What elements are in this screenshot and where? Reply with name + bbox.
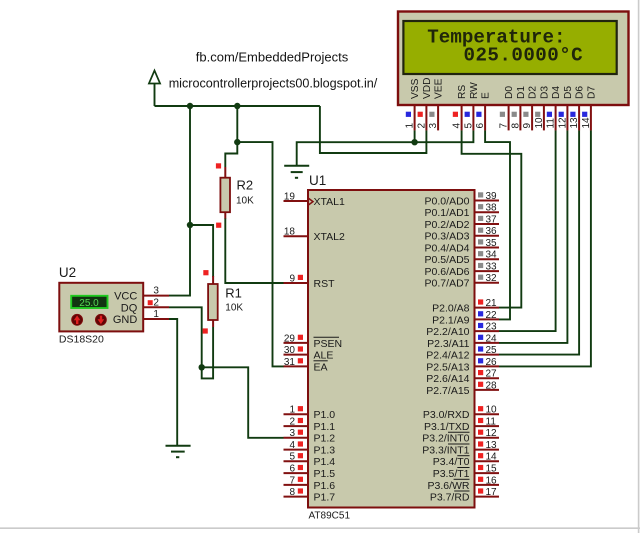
junction at rail x190 xyxy=(187,103,193,109)
junction VSS ground node xyxy=(411,139,417,145)
svg-text:18: 18 xyxy=(284,227,296,238)
svg-text:EA: EA xyxy=(314,361,328,373)
svg-text:7: 7 xyxy=(499,123,510,129)
svg-text:33: 33 xyxy=(486,262,498,273)
svg-text:26: 26 xyxy=(486,357,498,368)
wire D5 to P2.3 xyxy=(499,130,567,343)
U1 pin 33 P0.6/AD6 xyxy=(425,262,499,279)
U1 pin 11 P3.1/TXD xyxy=(424,417,499,434)
U1 pin 36 P0.3/AD3 xyxy=(425,226,499,243)
LCD pin 4 RS xyxy=(452,85,469,131)
svg-text:23: 23 xyxy=(486,322,498,333)
svg-text:37: 37 xyxy=(486,214,498,225)
U2 pin GND (1) xyxy=(113,309,169,326)
U2 temperature display 25.0 xyxy=(71,296,107,309)
junction DQ node xyxy=(199,364,205,370)
LCD pin 3 VEE xyxy=(428,78,445,130)
U1 pin 27 P2.6/A14 xyxy=(426,369,499,386)
U1 pin 22 P2.1/A9 xyxy=(432,310,499,327)
svg-text:XTAL2: XTAL2 xyxy=(314,231,345,243)
LCD pin 6 E xyxy=(475,92,492,130)
svg-text:3: 3 xyxy=(289,428,295,439)
LCD pin 7 D0 xyxy=(499,86,516,131)
svg-text:VEE: VEE xyxy=(434,78,445,99)
svg-text:P0.7/AD7: P0.7/AD7 xyxy=(425,278,470,290)
svg-text:16: 16 xyxy=(486,475,498,486)
svg-text:10: 10 xyxy=(486,405,498,416)
svg-text:P3.3/INT1: P3.3/INT1 xyxy=(422,445,469,457)
U1 pin 26 P2.5/A13 xyxy=(426,357,499,374)
svg-text:P2.3/A11: P2.3/A11 xyxy=(427,338,470,350)
wire D7 to P2.5 xyxy=(499,130,591,366)
U1 pin 30 ALE xyxy=(284,345,334,362)
svg-text:P0.2/AD2: P0.2/AD2 xyxy=(425,219,470,231)
svg-text:P0.5/AD5: P0.5/AD5 xyxy=(425,254,470,266)
svg-text:1: 1 xyxy=(153,309,159,320)
U1 pin 1 P1.0 xyxy=(284,405,336,422)
U2 pin VCC (3) xyxy=(114,286,169,303)
svg-text:D0: D0 xyxy=(504,86,515,99)
svg-text:P2.1/A9: P2.1/A9 xyxy=(432,314,470,326)
svg-text:U1: U1 xyxy=(309,173,326,188)
U1 pin 34 P0.5/AD5 xyxy=(425,250,499,267)
U1 pin 35 P0.4/AD4 xyxy=(425,238,499,255)
svg-text:P0.4/AD4: P0.4/AD4 xyxy=(425,242,470,254)
LCD pin 10 D3 xyxy=(534,86,551,131)
svg-text:19: 19 xyxy=(284,191,296,202)
wire R2 bottom to RST xyxy=(225,218,283,283)
U1 pin 10 P3.0/RXD xyxy=(423,405,499,422)
temperature sensor U2 DS18S20 xyxy=(59,283,143,332)
svg-text:34: 34 xyxy=(486,250,498,261)
svg-text:P3.6/WR: P3.6/WR xyxy=(427,480,469,492)
svg-text:21: 21 xyxy=(486,298,498,309)
svg-text:10: 10 xyxy=(534,117,545,129)
svg-text:13: 13 xyxy=(486,440,498,451)
svg-text:31: 31 xyxy=(284,357,296,368)
power terminal +5V xyxy=(149,71,160,107)
U1 pin 21 P2.0/A8 xyxy=(432,298,499,315)
wire VDD branch to LCD pin2 xyxy=(320,106,427,153)
svg-text:P1.6: P1.6 xyxy=(314,480,336,492)
LCD pin 2 VDD xyxy=(416,77,433,130)
svg-text:P1.0: P1.0 xyxy=(314,409,336,421)
U1 pin 25 P2.4/A12 xyxy=(426,345,499,362)
U2 pin DQ (2) xyxy=(121,297,169,314)
svg-text:6: 6 xyxy=(289,464,295,475)
svg-text:PSEN: PSEN xyxy=(314,338,343,350)
wire node to R1 bottom xyxy=(202,327,213,378)
wire to R2 top xyxy=(225,142,237,167)
ground symbol near U1 xyxy=(284,166,309,178)
U1 pin 5 P1.4 xyxy=(284,452,336,469)
svg-text:P0.6/AD6: P0.6/AD6 xyxy=(425,266,470,278)
U1 pin 28 P2.7/A15 xyxy=(426,380,499,397)
IC U1 AT89C51 body xyxy=(308,190,475,508)
wire VCC branch to U2 xyxy=(169,106,190,296)
LCD module body xyxy=(398,12,629,106)
U1 pin 18 XTAL2 xyxy=(284,227,345,244)
svg-text:P3.7/RD: P3.7/RD xyxy=(430,492,470,504)
wire E to P2.1 xyxy=(485,130,510,319)
wire D4 to P2.2 xyxy=(499,130,556,331)
svg-text:2: 2 xyxy=(153,297,159,308)
U1 pin 12 P3.2/INT0 xyxy=(422,428,499,445)
LCD pin 9 D2 xyxy=(522,86,539,131)
LCD pin 13 D6 xyxy=(569,86,586,131)
svg-text:5: 5 xyxy=(289,452,295,463)
svg-text:9: 9 xyxy=(289,273,295,284)
wire branch to R1 top xyxy=(190,225,213,277)
svg-text:39: 39 xyxy=(486,191,498,202)
wire DQ from U2 to node xyxy=(169,307,202,367)
svg-text:8: 8 xyxy=(289,487,295,498)
svg-text:P3.1/TXD: P3.1/TXD xyxy=(424,421,470,433)
svg-text:3: 3 xyxy=(153,286,159,297)
U1 pin 38 P0.1/AD1 xyxy=(425,203,499,220)
svg-text:7: 7 xyxy=(289,475,295,486)
svg-text:1: 1 xyxy=(289,405,295,416)
svg-text:6: 6 xyxy=(475,123,486,129)
U1 pin 39 P0.0/AD0 xyxy=(425,191,499,208)
U1 pin 16 P3.6/WR xyxy=(427,475,499,492)
U1 pin 17 P3.7/RD xyxy=(430,487,499,504)
svg-text:AT89C51: AT89C51 xyxy=(309,511,351,522)
U1 pin 7 P1.6 xyxy=(284,475,336,492)
svg-text:24: 24 xyxy=(486,333,498,344)
svg-text:XTAL1: XTAL1 xyxy=(314,196,345,208)
junction at rail x237 xyxy=(234,103,240,109)
svg-text:10K: 10K xyxy=(236,196,254,207)
svg-text:27: 27 xyxy=(486,369,498,380)
svg-text:25.0: 25.0 xyxy=(79,298,99,309)
LCD screen xyxy=(403,21,616,74)
svg-text:10K: 10K xyxy=(225,303,243,314)
svg-text:11: 11 xyxy=(546,118,557,129)
LCD pin 1 VSS xyxy=(405,78,422,130)
svg-text:VSS: VSS xyxy=(410,78,421,99)
svg-text:P1.2: P1.2 xyxy=(314,433,336,445)
svg-text:35: 35 xyxy=(486,238,498,249)
U1 pin 8 P1.7 xyxy=(284,487,336,504)
svg-text:P1.4: P1.4 xyxy=(314,456,336,468)
wire ground net to LCD VSS and RW xyxy=(297,130,474,166)
svg-text:025.0000°C: 025.0000°C xyxy=(464,45,584,67)
U1 pin 13 P3.3/INT1 xyxy=(422,440,499,457)
svg-text:R1: R1 xyxy=(225,286,242,301)
svg-text:28: 28 xyxy=(486,380,498,391)
svg-text:17: 17 xyxy=(486,487,498,498)
wire RS to P2.0 xyxy=(462,130,522,307)
svg-text:DQ: DQ xyxy=(121,302,138,314)
svg-text:P3.4/T0: P3.4/T0 xyxy=(433,456,470,468)
svg-text:P3.0/RXD: P3.0/RXD xyxy=(423,409,470,421)
svg-text:D3: D3 xyxy=(540,86,551,99)
U1 pin 19 XTAL1 xyxy=(284,191,345,208)
U1 pin 24 P2.3/A11 xyxy=(427,333,499,350)
svg-text:P2.5/A13: P2.5/A13 xyxy=(426,361,469,373)
svg-text:12: 12 xyxy=(486,428,498,439)
svg-text:2: 2 xyxy=(416,123,427,129)
svg-text:12: 12 xyxy=(557,117,568,129)
junction EA/R2 node xyxy=(234,139,240,145)
svg-text:P1.5: P1.5 xyxy=(314,468,336,480)
svg-text:25: 25 xyxy=(486,345,498,356)
svg-text:VDD: VDD xyxy=(422,77,433,99)
U1 pin 9 RST xyxy=(284,273,336,290)
svg-text:VCC: VCC xyxy=(114,291,137,303)
svg-text:GND: GND xyxy=(113,314,138,326)
LCD pin 11 D4 xyxy=(546,86,563,131)
U2 up button xyxy=(72,314,83,325)
svg-text:R2: R2 xyxy=(237,178,254,193)
svg-text:14: 14 xyxy=(581,117,592,129)
svg-text:11: 11 xyxy=(486,417,497,428)
svg-text:D5: D5 xyxy=(563,86,574,99)
svg-text:RST: RST xyxy=(314,278,336,290)
svg-text:1: 1 xyxy=(405,123,416,129)
svg-text:22: 22 xyxy=(486,310,498,321)
resistor R2 xyxy=(216,163,230,228)
svg-text:DS18S20: DS18S20 xyxy=(59,334,104,346)
U2 down button xyxy=(96,314,107,325)
svg-text:5: 5 xyxy=(463,123,474,129)
svg-text:fb.com/EmbeddedProjects: fb.com/EmbeddedProjects xyxy=(196,50,349,65)
U1 pin 3 P1.2 xyxy=(284,428,336,445)
LCD pin 12 D5 xyxy=(557,86,574,131)
svg-text:microcontrollerprojects00.blog: microcontrollerprojects00.blogspot.in/ xyxy=(169,77,378,91)
svg-text:P2.2/A10: P2.2/A10 xyxy=(426,326,469,338)
LCD pin 14 D7 xyxy=(581,86,598,131)
U1 pin 15 P3.5/T1 xyxy=(433,464,499,481)
svg-text:P1.1: P1.1 xyxy=(314,421,336,433)
wire power rail xyxy=(155,105,320,107)
svg-text:8: 8 xyxy=(510,123,521,129)
svg-text:P1.7: P1.7 xyxy=(314,492,336,504)
svg-text:P0.3/AD3: P0.3/AD3 xyxy=(425,231,470,243)
svg-text:15: 15 xyxy=(486,464,498,475)
U1 pin 4 P1.3 xyxy=(284,440,336,457)
svg-text:D6: D6 xyxy=(575,86,586,99)
svg-text:4: 4 xyxy=(289,440,295,451)
svg-text:14: 14 xyxy=(486,452,498,463)
U1 pin 29 PSEN xyxy=(284,333,343,350)
U1 pin 2 P1.1 xyxy=(284,417,336,434)
U1 pin 32 P0.7/AD7 xyxy=(425,273,499,290)
U1 pin 14 P3.4/T0 xyxy=(433,452,499,469)
svg-text:ALE: ALE xyxy=(314,350,334,362)
svg-text:D1: D1 xyxy=(516,86,527,99)
svg-text:2: 2 xyxy=(289,417,295,428)
U1 pin 23 P2.2/A10 xyxy=(426,322,499,339)
svg-text:D4: D4 xyxy=(551,86,562,99)
svg-text:D2: D2 xyxy=(528,86,539,99)
junction VCC/R1 node xyxy=(187,222,193,228)
svg-text:P2.7/A15: P2.7/A15 xyxy=(426,385,469,397)
U1 pin 37 P0.2/AD2 xyxy=(425,214,499,231)
svg-text:U2: U2 xyxy=(59,265,76,280)
svg-text:P2.4/A12: P2.4/A12 xyxy=(426,350,469,362)
wire EA tie-high xyxy=(237,142,283,366)
svg-text:36: 36 xyxy=(486,226,498,237)
ground symbol bottom left xyxy=(166,446,191,457)
wire U2 GND to ground xyxy=(169,319,177,446)
U1 pin 6 P1.5 xyxy=(284,464,336,481)
svg-text:3: 3 xyxy=(428,123,439,129)
svg-text:RW: RW xyxy=(469,82,480,99)
U1 XTAL1 clock arrow xyxy=(308,198,313,205)
svg-text:29: 29 xyxy=(284,333,296,344)
svg-text:38: 38 xyxy=(486,203,498,214)
svg-text:13: 13 xyxy=(569,117,580,129)
U1 pin 31 EA xyxy=(284,357,328,374)
wire node to P1.2 xyxy=(202,367,284,438)
wire branch down from rail at x237 xyxy=(236,106,238,142)
LCD pin 8 D1 xyxy=(510,86,527,131)
svg-text:9: 9 xyxy=(522,123,533,129)
svg-text:P3.5/T1: P3.5/T1 xyxy=(433,468,470,480)
wire D6 to P2.4 xyxy=(499,130,579,354)
svg-text:P3.2/INT0: P3.2/INT0 xyxy=(422,433,469,445)
svg-text:RS: RS xyxy=(457,85,468,99)
svg-text:P1.3: P1.3 xyxy=(314,445,336,457)
svg-text:P0.1/AD1: P0.1/AD1 xyxy=(425,207,470,219)
svg-text:P2.6/A14: P2.6/A14 xyxy=(426,373,469,385)
svg-text:30: 30 xyxy=(284,345,296,356)
svg-text:P2.0/A8: P2.0/A8 xyxy=(432,303,470,315)
svg-text:4: 4 xyxy=(452,123,463,129)
svg-text:E: E xyxy=(481,92,492,99)
svg-text:D7: D7 xyxy=(587,86,598,99)
LCD pin 5 RW xyxy=(463,82,480,131)
resistor R1 xyxy=(203,270,218,334)
svg-text:P0.0/AD0: P0.0/AD0 xyxy=(425,195,470,207)
svg-text:32: 32 xyxy=(486,273,498,284)
